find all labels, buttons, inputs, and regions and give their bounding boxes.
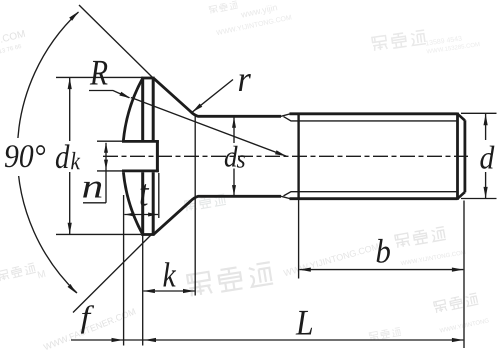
b extension left bbox=[298, 200, 300, 279]
r leader line bbox=[192, 80, 233, 113]
d dimension line lower bbox=[485, 172, 487, 198]
svg-text:M: M bbox=[36, 269, 47, 282]
label b bbox=[377, 239, 390, 263]
dome arc (head crown) lower bbox=[123, 172, 142, 234]
radius line arrow at center bbox=[275, 150, 287, 156]
watermark bottom-left url bbox=[42, 306, 137, 351]
dk edge line (vertical B) upper bbox=[152, 78, 155, 140]
end face bbox=[463, 120, 466, 192]
t extension line (slot bottom extended down) bbox=[158, 173, 160, 218]
90-deg arc arrowhead bottom bbox=[68, 284, 77, 294]
svg-text:www.yijin: www.yijin bbox=[239, 2, 278, 20]
apex extension line (for f) bbox=[123, 195, 125, 346]
slot top extension (thin) bbox=[97, 140, 122, 142]
R leader line bbox=[89, 91, 129, 98]
b arrow left bbox=[299, 268, 311, 272]
watermark center-bottom url bbox=[282, 241, 380, 278]
dk extension line top bbox=[56, 76, 143, 78]
svg-text:13 76 66: 13 76 66 bbox=[0, 44, 23, 56]
r leader arrow bbox=[192, 104, 202, 113]
slot bottom line bbox=[122, 169, 159, 172]
label dk bbox=[55, 141, 85, 172]
f arrow (points right at apex line) bbox=[112, 338, 124, 342]
n label underline bbox=[83, 202, 106, 204]
t arrow left bbox=[124, 213, 134, 217]
n arrow bottom bbox=[104, 160, 108, 170]
label f bbox=[81, 305, 94, 333]
watermark bottom-right logo bbox=[434, 293, 479, 313]
watermark top-left .COM bbox=[0, 29, 29, 56]
watermark top-center tiny text bbox=[209, 1, 238, 14]
n arrow top bbox=[104, 143, 108, 153]
k arrow right bbox=[183, 289, 195, 293]
watermark large outlined logo bbox=[187, 262, 273, 296]
watermark top-right logo bbox=[372, 30, 426, 51]
thread OD bottom bbox=[290, 197, 458, 200]
dome arc (head crown) upper bbox=[123, 78, 142, 140]
chamfer start line bbox=[456, 113, 459, 200]
head bottom edge bbox=[141, 233, 154, 236]
shank-taper top thin bbox=[281, 114, 290, 116]
watermark left-edge bbox=[0, 263, 36, 281]
thread minor bottom thin bbox=[284, 192, 458, 196]
watermark mid-left logo bbox=[185, 194, 226, 211]
k extension right (cone-shank junction) bbox=[194, 114, 196, 296]
ds arrow top bbox=[232, 117, 236, 128]
label d bbox=[480, 146, 494, 169]
watermark bottom-center bbox=[369, 327, 401, 340]
thread OD top bbox=[290, 112, 458, 115]
L arrow right bbox=[452, 338, 464, 342]
b arrow right bbox=[452, 268, 464, 272]
full-thread boundary line bbox=[297, 113, 299, 200]
t dimension line bbox=[124, 214, 158, 216]
svg-text:WWW.YIJINTONG.COM: WWW.YIJINTONG.COM bbox=[282, 241, 380, 278]
d extension top bbox=[461, 112, 497, 114]
L arrow left bbox=[145, 338, 157, 342]
label t bbox=[141, 184, 150, 206]
dk arrow top bbox=[68, 78, 72, 90]
dk dimension line bbox=[69, 78, 71, 235]
ds dimension line upper bbox=[233, 118, 235, 144]
label r bbox=[239, 74, 251, 91]
chamfer diagonal bottom bbox=[458, 192, 465, 199]
head top edge bbox=[141, 77, 154, 80]
90-deg arc arrowhead top bbox=[69, 12, 78, 21]
b dimension line bbox=[299, 269, 463, 271]
90-deg construction: lower ray bbox=[73, 234, 153, 313]
ds dimension line lower bbox=[233, 169, 235, 196]
label 90deg bbox=[1, 138, 47, 176]
svg-text:WWW.YIJINTONG.COM: WWW.YIJINTONG.COM bbox=[216, 14, 293, 37]
shank-taper bottom thin bbox=[281, 196, 290, 198]
dome edge line (vertical A) lower bbox=[141, 172, 144, 234]
watermark mid-right logo bbox=[395, 227, 446, 248]
chamfer diagonal top bbox=[458, 114, 465, 121]
dk extension line bottom bbox=[56, 233, 141, 235]
d arrow bottom bbox=[484, 187, 488, 199]
R radius line to center bbox=[131, 98, 287, 157]
slot top line bbox=[122, 140, 159, 143]
k extension left (dome edge extended) bbox=[142, 235, 144, 346]
k arrow left bbox=[143, 289, 155, 293]
R leader arrow bbox=[119, 92, 130, 99]
slot bottom face (right edge) bbox=[156, 140, 159, 172]
f tail + L dimension line bbox=[71, 339, 463, 341]
cone bottom edge + shank bottom bbox=[154, 196, 281, 234]
d extension bottom bbox=[461, 198, 497, 200]
t arrow right bbox=[148, 213, 158, 217]
svg-text:.COM: .COM bbox=[0, 29, 27, 46]
k dimension line bbox=[143, 290, 194, 292]
label n bbox=[83, 182, 101, 198]
label k bbox=[163, 262, 176, 286]
thread minor top thin bbox=[284, 117, 458, 121]
centerline (axis, dash-dot) bbox=[103, 155, 468, 157]
right extension (b and L) bbox=[463, 201, 465, 349]
label ds bbox=[225, 146, 238, 167]
label L bbox=[296, 311, 313, 335]
svg-text:WWW.YIJINTONG.COM: WWW.YIJINTONG.COM bbox=[400, 250, 466, 267]
ds arrow bottom bbox=[232, 185, 236, 196]
svg-text:WWW.YIJINTONG: WWW.YIJINTONG bbox=[439, 318, 490, 334]
dome edge line (vertical A) upper bbox=[141, 78, 144, 140]
n dimension line bbox=[105, 143, 107, 203]
slot bottom extension (thin) bbox=[97, 170, 122, 172]
label R bbox=[90, 61, 108, 85]
cone top edge + shank top bbox=[154, 78, 281, 116]
d arrow top bbox=[484, 114, 488, 126]
dk arrow bottom bbox=[68, 223, 72, 235]
90-deg construction: arc bbox=[17, 12, 78, 293]
d dimension line upper bbox=[485, 114, 487, 140]
90-deg construction: upper ray bbox=[79, 5, 153, 78]
dk edge line (vertical B) lower bbox=[152, 172, 155, 234]
